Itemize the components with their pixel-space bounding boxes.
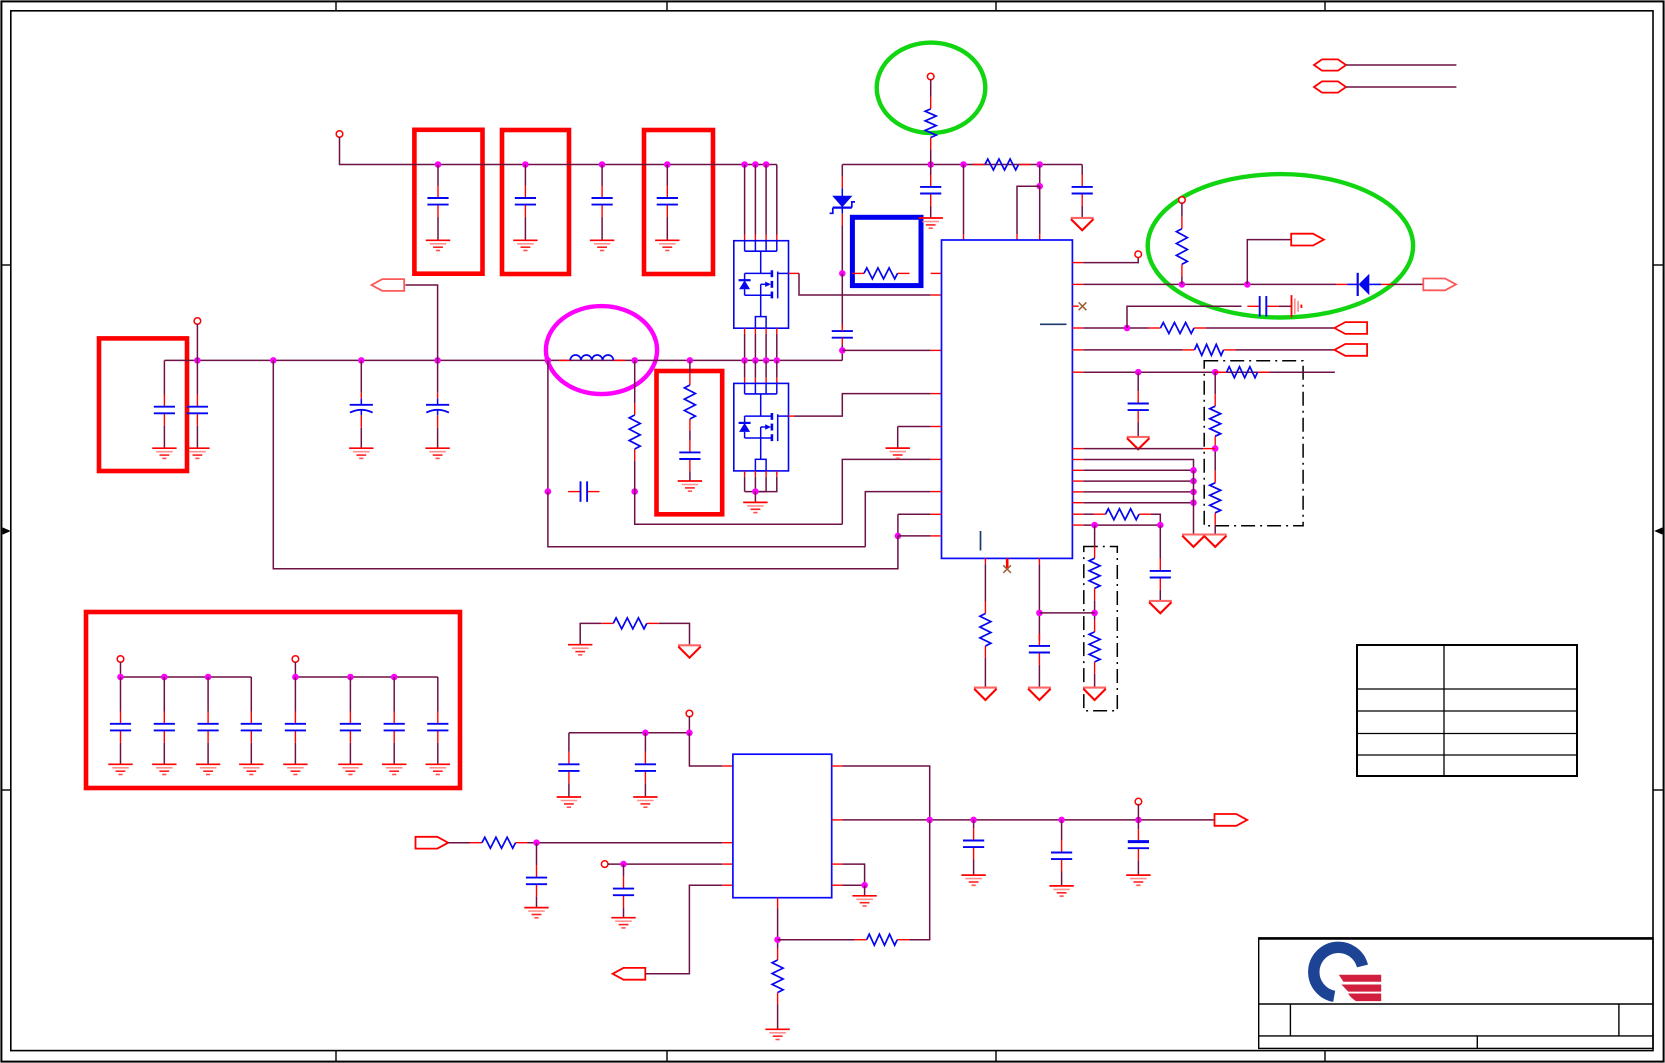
ground under C6 [349,448,373,458]
capacitor C17a [558,752,579,783]
wire cap 2 to ground [524,217,526,240]
ground under U2 [852,896,876,906]
capacitor C13 [1247,296,1278,317]
wire bank 1 cap 2 gnd [163,743,165,765]
port EN (left, light red) [372,279,405,291]
wire C6 to ground [360,428,362,448]
junction bank 2 b [347,674,354,681]
OC to R junction red [1203,448,1215,450]
junction zener line/CS wire [839,347,846,354]
wire VOUT to C22 [1137,820,1139,829]
junction SW/Q2 pin2 [752,357,759,364]
capacitor C8 (sense) [568,481,599,502]
junction boot/R1 [927,161,934,168]
Q2 drain pin stub 4 [776,378,778,384]
capacitor bank2-2 [340,711,361,742]
capacitor C5a [154,394,175,425]
wire AGND down [897,427,899,449]
ground under C17a [557,797,581,807]
wire zener node to C12 [841,273,843,328]
resistor R15 [980,602,991,659]
resistor R3 (gate, in blue box) [852,268,910,279]
U1 pin stub COMP [1072,327,1083,329]
power pin P8 [1135,798,1142,805]
wire EN port to SW [405,285,437,360]
wire FB to R18 [778,939,855,941]
ground under C10 [919,218,943,228]
ground bank2-3 [382,764,406,774]
U1 pin stub D481.1 [1072,480,1083,482]
junction SW/C5 [194,357,201,364]
ground bank1-3 [196,764,220,774]
capacitor C20 [963,828,984,859]
junction VIN/C3 [599,161,606,168]
resistor R6 [1183,344,1236,355]
port bidirectional A [1314,59,1346,70]
U1 top pin stub VCC [963,234,965,240]
capacitor C22 (thick top plate) [1128,829,1149,860]
junction SW/L1 right [631,357,638,364]
junction VIN/Q1 pin1 [741,161,748,168]
wire PG port to U2 [645,885,722,974]
wire VCC to U1 [963,165,965,235]
wire C12 to SW-sense dot [841,344,843,360]
wire LDO input rail [569,732,690,734]
wire bank 2 cap 4 gnd [437,743,439,765]
wire SW to C5b [196,360,198,394]
frame zone tick bottom x=996 [995,1051,997,1062]
capacitor C10 [920,175,941,206]
capacitor C1 [427,186,448,217]
wire port B stub [1346,86,1456,88]
wire C21 gnd [1061,872,1063,886]
U1 pin stub CS2 [931,349,942,351]
ground right of R16 (triangle) [678,645,701,657]
resistor R8 (snubber) [684,373,695,431]
Q2 drain pin stub 2 [754,378,756,384]
capacitor bank1-2 [154,711,175,742]
frame zone tick top x=996 [995,1,997,10]
frame zone tick right y=790 [1653,789,1664,791]
junction FB/port riser [1244,281,1251,288]
wire Q2 source 3 to gnd node [765,477,767,492]
junction SW/R-snub [687,357,694,364]
capacitor bank1-4 [241,711,262,742]
wire ILIM to C14 [1137,372,1139,391]
wire R13 to R14 [1094,600,1096,620]
wire D row y=491.9 [1083,491,1193,493]
wire P2 down [196,324,198,361]
ground under C11 (triangle) [1071,218,1094,230]
wire PGOOD to pin circle [1083,257,1138,262]
wire Q2 source 2 to gnd node [754,477,756,492]
wire C20 gnd [973,860,975,876]
wire zener to R3 node [841,226,843,274]
wire R6 to port [1236,349,1335,351]
wire R19 to ground [777,1005,779,1030]
wire R7 to cap junction [634,461,636,492]
junction LDO rail/pin [686,730,693,737]
wire D2 to port [1393,283,1424,285]
ground under C21 [1049,886,1073,896]
resistor R16 (ground tie) [601,618,659,629]
wire C10 to ground [930,206,932,218]
transistor Q1 (high-side dual MOSFET with body diode) [734,241,789,329]
inductor L1 [559,355,625,360]
U1 top pin stub BST [1039,234,1041,240]
port VSNS (left) [1334,344,1367,356]
junction D bus y=502.7 [1190,499,1197,506]
wire RTN down [984,564,986,601]
U1 pin stub CS [931,458,942,460]
wire P3 to R1 [930,79,932,97]
wire branch down [1039,165,1041,187]
wire R18 to VOUT [909,820,930,940]
wire R14 to ground [1094,674,1096,688]
resistor R1 (pullup) [925,97,936,150]
U1 pin stub VOUT-FB [1072,283,1083,285]
capacitor C5b [187,394,208,425]
wire SW to C6 [360,360,362,392]
wire EN net long [273,360,898,568]
ground under R14 (triangle) [1083,688,1106,700]
capacitor C19 [613,876,634,907]
wire bank 2 cap 1 drop [294,677,296,712]
wire C17a gnd [568,783,570,797]
wire Q1 source 3 to SW node [765,334,767,360]
wire Q1 source 1 to SW node [744,334,746,360]
Q1 drain pin stub 1 [744,235,746,241]
frame zone tick right y=265 [1653,264,1664,266]
highlight green ellipse 1 (pullup resistor) [877,43,986,133]
capacitor bank2-3 [384,711,405,742]
frame centre arrow right [1654,527,1663,534]
wire D0 [1083,460,1193,471]
wire P8 down [1137,805,1139,820]
frame zone tick top x=1325 [1324,1,1326,10]
wire R10 to R11 [1214,448,1216,471]
junction SW/C6 [358,357,365,364]
U2 pin stub PG [722,884,733,886]
power pin P7 [601,861,608,868]
junction FB/R4 [1179,281,1186,288]
wire VOUT to C21 [1061,820,1063,840]
power pin bank 1 [117,656,124,663]
Q2 drain pin stub 1 [744,378,746,384]
wire SS to U1 [898,513,931,515]
ground under C1 [426,240,450,250]
Q2 source pin stub 4 [776,471,778,477]
U1 pin stub EN2 [931,535,942,537]
wire ILIM rail [1083,371,1335,373]
wire SW to C5a [163,360,165,394]
Q1 drain pin stub 3 [765,235,767,241]
wire R1 to boot rail [930,150,932,165]
resistor R17 [470,837,528,848]
wire boot rail [842,164,1082,166]
port 3V3 (right) [1215,814,1248,826]
junction VIN/C2 [522,161,529,168]
U1 bottom pin stub AGND2 [1038,558,1040,564]
U1 pin stub PGOOD [1072,262,1083,264]
wire C11 to ground [1081,206,1083,218]
junction boot/branch [1036,161,1043,168]
wire Q2 source to ground [754,492,756,503]
junction boot/U1 VCC [960,161,967,168]
U2 pin stub BIAS [832,765,843,767]
diode D2 (catch) [1347,273,1381,296]
wire EN row to U1 [898,535,931,537]
D2 anode stub [1381,283,1393,285]
capacitor C14 [1128,391,1149,422]
highlight red box 5 (snubber RC) [657,371,723,514]
Q2 source pin stub 1 [744,471,746,477]
ground under C15 (triangle) [1149,601,1172,613]
ground under C5a [152,448,176,458]
Q2 drain pin stub 3 [765,378,767,384]
junction D bus y=491.9 [1190,489,1197,496]
frame zone tick bottom x=336 [335,1051,337,1062]
junction COMP branch [1124,325,1131,332]
ground under D bus (triangle) [1182,535,1205,547]
wire bank 2 pin down [294,662,296,677]
wire VSNS to R6 [1083,349,1182,351]
wire VIN to cap 2 [524,165,526,186]
D2 cathode stub [1336,283,1347,285]
wire Q1 gate to U1 [799,273,931,295]
wire bank 1 cap 1 drop [120,677,122,712]
wire port A stub [1346,64,1456,66]
ground under C7 [425,448,449,458]
wire rail to C17b [644,733,646,752]
junction zener/R3 [839,270,846,277]
wire Q2 source 1 to gnd node [744,477,746,492]
capacitor C11 [1072,175,1093,206]
ground bank1-4 [239,764,263,774]
ground under R11 (triangle) [1204,535,1227,547]
wire bank 2 cap 2 gnd [349,743,351,765]
wire C18 gnd [536,897,538,908]
wire CS to U1 [842,349,930,351]
U1 pin stub LG [931,393,942,395]
junction bank 1 a [117,674,124,681]
annotation dash-dot box left (feedback divider) [1084,547,1118,711]
highlight red box 1 (input caps C1) [414,130,482,274]
wire VIN to Q1 drain pin 1 [744,165,746,235]
ground under C18 [524,908,548,918]
ground under C17b [633,797,657,807]
U2 bottom pin stub FB [777,898,779,909]
junction SW/Q2 pin4 [774,357,781,364]
U1 pin stub OC [1072,448,1083,450]
wire FB lower to U1 [865,492,930,547]
resistor R9 (divider top) [1215,367,1270,378]
U1 pin stub ILIM [1072,371,1083,373]
wire EN to C18 [536,843,538,866]
wire C15 to ground [1159,590,1161,601]
wire P6 down [688,716,690,732]
wire bank 2 cap 4 drop [437,677,439,712]
wire C17b gnd [644,783,646,797]
wire VOUT to C20 [973,820,975,828]
junction SW/stub [270,357,277,364]
wire VIN to cap 3 [601,165,603,186]
wire COMP to R5 [1083,327,1148,329]
wire R4 to FB rail [1181,276,1183,284]
ground under C16 (triangle) [1028,688,1051,700]
wire R17 to U2 EN [528,842,723,844]
U1 bottom pin stub RTN [984,558,986,564]
wire C5a to ground [163,426,165,449]
wire D bus to ground [1193,470,1195,534]
ground bank2-4 [426,764,450,774]
Q1 drain pin stub 4 [776,235,778,241]
junction R13/R14 [1091,610,1098,617]
Q1 source pin stub 1 [744,328,746,334]
wire port to R17 [448,842,470,844]
wire R9 down chain [1214,372,1216,394]
wire bank 2 cap 3 gnd [393,743,395,765]
wire bank 1 cap 4 drop [250,677,252,712]
wire cap 4 to ground [666,217,668,240]
junction VIN/C1 [435,161,442,168]
U2 pin stub VOUT [832,819,843,821]
wire P5 to R4 [1181,203,1183,217]
Q2 source pin stub 2 [754,471,756,477]
port 5V_IN (right) [416,837,449,849]
junction sense cap right [631,488,638,495]
junction Q2 source [752,488,759,495]
resistor R12 [1094,509,1152,520]
wire boot to C10 [930,165,932,175]
junction ILIM/C14 [1135,369,1142,376]
wire bank 1 rail [121,676,252,678]
wire Q2 source bus [745,491,767,493]
highlight magenta ellipse (inductor L1) [546,306,657,394]
port VOUT_SNS (right) [1291,234,1324,246]
junction VIN/Q1 pin3 [763,161,770,168]
wire sense riser to U1 pin [842,459,930,524]
wire SYNC row [1083,524,1160,526]
wire bank 1 pin down [120,662,122,677]
wire P1 to VIN rail [340,137,777,165]
resistor R13 (in dash box) [1089,546,1100,600]
wire R5 to port [1206,327,1334,329]
U1 pin stub D0 [1072,459,1083,461]
ground under C14 (triangle) [1127,437,1150,449]
wire D row y=481.1 [1083,480,1193,482]
wire SW to C7 [437,360,439,392]
junction VOUT/C22 [1135,817,1142,824]
capacitor bank1-1 [110,711,131,742]
wire VIN to cap 4 [666,165,668,186]
resistor R19 (feedback bottom) [772,948,783,1005]
wire VOUT rail [843,819,1215,821]
wire C19 gnd [623,908,625,918]
highlight red box 6 (decoupling cap bank) [86,612,460,788]
resistor R18 (feedback top) [855,934,910,945]
ground under Q2 [743,502,767,512]
U1 pin stub RT [1072,513,1083,515]
junction VOUT/C21 [1058,817,1065,824]
wire rail to U2 VIN [689,733,722,766]
ground bank2-1 [283,764,307,774]
wire VIN to Q1 drain pin 2 [754,165,756,235]
wire C16 to ground [1038,665,1040,688]
wire R11 to ground [1214,525,1216,535]
power pin P1 [336,131,343,138]
power pin P2 [194,318,201,325]
wire C5b to ground [196,426,198,449]
U1 top pin stub VDD [1016,234,1018,240]
resistor R14 (in dash box) [1089,620,1100,674]
wire U2 pad [843,884,865,886]
U2 pin stub GND [832,863,843,865]
capacitor C6 (polarized) [350,393,373,428]
ground rotated (C13) [1292,295,1302,317]
junction VOUT/feedback [926,817,933,824]
port VOUT (right, light red) [1423,279,1456,291]
ground bank1-2 [152,764,176,774]
U1 pin stub D502.7 [1072,502,1083,504]
wire bank 2 cap 1 gnd [294,743,296,765]
frame centre arrow left [1,527,10,534]
wire bank 2 cap 2 drop [349,677,351,712]
zener top pin [841,176,843,188]
resistor R5 [1149,323,1207,334]
junction SW/Q2 pin3 [763,357,770,364]
ground under C4 [655,240,679,250]
wire bank 1 cap 4 gnd [250,743,252,765]
resistor R2 (boot) [973,159,1031,170]
wire D row y=502.7 [1083,502,1193,504]
wire SS to C19 [623,864,625,876]
ground under C22 [1126,875,1150,885]
junction U2 gnd [861,882,868,889]
wire link AGND2 to divider [1039,612,1094,614]
U1 pin stub FB [931,491,942,493]
port bidirectional B [1314,81,1346,92]
U1 pin stub SYNC [1072,524,1083,526]
frame zone tick left y=790 [1,789,10,791]
junction SYNC/C15 [1157,522,1164,529]
junction VOUT/C20 [970,817,977,824]
capacitor C9 (snubber) [679,440,700,471]
wire boot corner to zener [841,165,843,177]
company logo ring [1314,947,1363,996]
capacitor C3 [592,186,613,217]
junction SYNC/divider [1091,522,1098,529]
junction ILIM/R9 [1212,369,1219,376]
junction FB node [774,936,781,943]
transistor Q2 (low-side dual MOSFET with body diode) [734,383,789,471]
ground under C2 [513,240,537,250]
zener bottom pin [841,214,843,226]
frame zone tick bottom x=1325 [1324,1051,1326,1062]
revision table [1357,645,1577,776]
zener diode D1 [830,188,855,213]
IC U1 (buck controller) [942,240,1073,558]
resistor R4 [1176,217,1187,277]
U1 inner mark 2 [980,531,982,551]
U2 pin stub VIN [722,765,733,767]
company logo fan [1339,975,1381,1001]
junction R10/R11 [1212,445,1219,452]
Q2 gate pin stub [789,415,795,417]
power pin P6 [686,710,693,717]
wire SW to Q2 drain pin 4 [776,360,778,377]
wire COMP branch to C13 [1127,306,1242,328]
